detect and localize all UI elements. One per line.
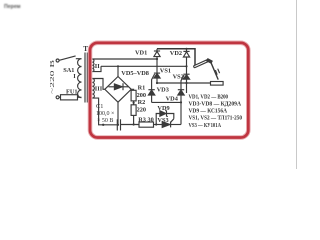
VS2 gate wire to VD4 xyxy=(181,75,184,90)
node VD9 branch tap xyxy=(155,123,157,125)
page edge line right xyxy=(296,0,298,169)
wire: stack2 stub below output bus xyxy=(186,83,188,93)
node bottom bus joint xyxy=(102,124,104,126)
wire: loop right side up to node B xyxy=(180,102,182,124)
svg-text:VS1, VS2 — ТЛ171-250: VS1, VS2 — ТЛ171-250 xyxy=(189,115,243,122)
wire: winding II bottom step to AC2 bus xyxy=(92,66,101,71)
node AC2 / VD2-VS2 junction xyxy=(185,65,187,67)
wire: R3 to VS3 anode xyxy=(154,124,163,126)
svg-text:VS2: VS2 xyxy=(173,73,184,80)
svg-text:I: I xyxy=(73,73,76,80)
svg-text:C1: C1 xyxy=(96,103,103,110)
thyristor VS3 xyxy=(162,119,181,128)
node B right junction xyxy=(180,101,182,103)
diode VD4 xyxy=(178,90,184,103)
svg-text:VD3-VD8 — КД209А: VD3-VD8 — КД209А xyxy=(189,101,242,108)
node bridge/C1 junction xyxy=(117,124,119,126)
wire: bridge right corner to R1 top xyxy=(131,89,133,90)
diode VD1 xyxy=(154,49,160,59)
svg-text:III: III xyxy=(95,86,103,93)
transformer T secondary winding II xyxy=(92,59,94,72)
capacitor C1 xyxy=(117,119,120,130)
bridge inner diode xyxy=(109,83,129,90)
svg-text:100,0 ×: 100,0 × xyxy=(96,111,114,117)
node VS1 anode junction xyxy=(156,82,158,84)
svg-text:× 50 В: × 50 В xyxy=(97,118,113,124)
bridge rectifier VD5-VD8 (diamond) xyxy=(105,77,131,103)
wire: winding III bottom down to bottom bus xyxy=(92,98,117,125)
terminal X1 (top input circle) xyxy=(56,59,59,62)
node R2-bottom junction xyxy=(133,123,135,125)
thyristor VS1 xyxy=(154,73,160,83)
wire: bottom bus C1 to R3 xyxy=(121,124,140,126)
wire: R2 bottom to bus xyxy=(133,115,135,124)
svg-text:FU1: FU1 xyxy=(66,89,78,96)
resistor R2 xyxy=(131,105,136,116)
zener diode VD9 xyxy=(156,111,174,125)
svg-text:VS1: VS1 xyxy=(160,67,171,74)
wire: bridge top corner lead xyxy=(117,66,119,76)
arc dashes xyxy=(215,69,219,75)
svg-text:Т: Т xyxy=(83,45,88,53)
wire: R1 to R2 xyxy=(133,101,135,105)
svg-text:VD9 — КС156А: VD9 — КС156А xyxy=(189,108,228,115)
svg-text:Перем: Перем xyxy=(4,4,21,10)
node VS2 anode junction xyxy=(185,82,187,84)
junction dot AC2/bridge-top xyxy=(117,65,119,67)
red highlight frame xyxy=(90,43,248,138)
resistor R1 xyxy=(131,90,136,101)
node B wire (VD3/VD4 anodes common) xyxy=(152,101,181,103)
svg-text:VS3: VS3 xyxy=(157,117,168,124)
svg-text:VD3: VD3 xyxy=(157,86,169,93)
node VD2 top junction xyxy=(185,48,187,50)
wire: top bus (VD1/VD2 cathodes to electrode) xyxy=(157,49,195,65)
svg-text:200: 200 xyxy=(137,92,146,99)
wire: output bus (VS1/VS2 anodes to workpiece) xyxy=(157,82,211,84)
svg-text:VD9: VD9 xyxy=(157,105,169,112)
thyristor VS2 xyxy=(183,74,189,83)
transformer T primary winding I xyxy=(78,59,82,98)
workpiece xyxy=(211,82,224,86)
svg-text:VD1, VD2 — В200: VD1, VD2 — В200 xyxy=(189,93,229,100)
switch SA1 xyxy=(59,56,81,60)
wire: AC2 bus to VD2/VS2 junction xyxy=(101,65,187,67)
terminal X2 (bottom input circle) xyxy=(56,96,59,99)
svg-text:R2: R2 xyxy=(138,99,146,106)
electrode holder handle xyxy=(194,59,209,68)
svg-text:VD1: VD1 xyxy=(135,50,147,57)
wire: winding II top to VD1/VS1 junction (AC1) xyxy=(92,58,157,60)
fuse FU1 xyxy=(59,95,81,100)
svg-text:VS3 — КУ101А: VS3 — КУ101А xyxy=(189,122,222,129)
svg-text:R3 30: R3 30 xyxy=(138,116,154,123)
node AC1 / VD1-VS1 junction xyxy=(156,58,158,60)
svg-text:VD4: VD4 xyxy=(166,95,179,102)
welding electrode xyxy=(211,62,218,79)
diode VD3 xyxy=(148,90,154,103)
transformer T core xyxy=(85,53,87,103)
wire: stack2 mid xyxy=(186,66,188,74)
wire: stack1 mid xyxy=(156,59,158,73)
resistor R3 xyxy=(139,122,154,127)
svg-text:VD5–VD8: VD5–VD8 xyxy=(121,70,149,77)
transformer T secondary winding III xyxy=(92,79,94,99)
svg-text:II: II xyxy=(95,63,100,70)
svg-text:VD2: VD2 xyxy=(170,50,182,57)
svg-text:220: 220 xyxy=(137,107,146,114)
svg-text:R1: R1 xyxy=(138,84,146,91)
legend text block xyxy=(189,93,243,128)
electrode holder jaw (thick elbow) xyxy=(207,60,212,63)
node R1/R2 junction xyxy=(133,102,135,104)
diode VD2 xyxy=(183,49,189,67)
VS1 gate wire to VD3 xyxy=(152,74,155,90)
wire: bridge bottom corner down to C1 / bottom bus xyxy=(117,102,119,124)
svg-text:~220 В: ~220 В xyxy=(49,59,56,94)
wire: winding III top to bridge left corner xyxy=(92,79,104,90)
